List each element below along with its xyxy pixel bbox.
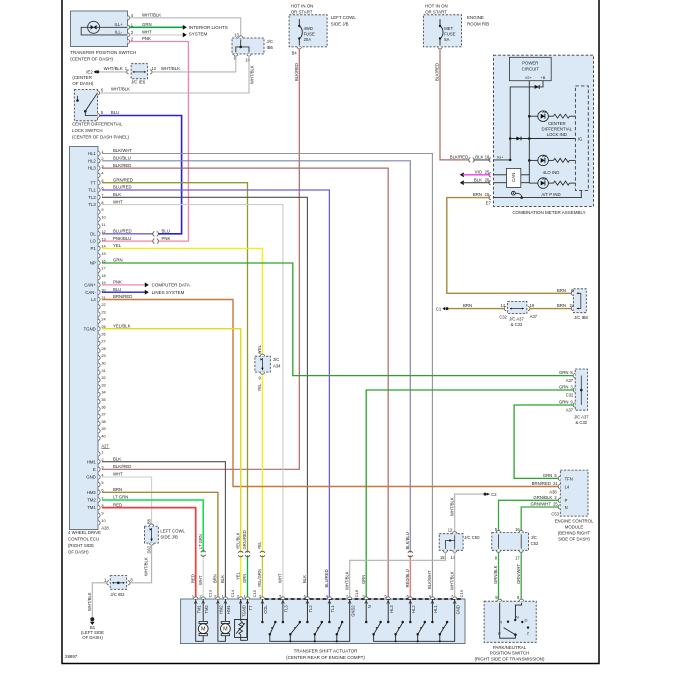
svg-text:TM2: TM2 [87,498,96,503]
svg-text:38: 38 [101,419,105,424]
svg-text:GND: GND [86,475,96,480]
svg-text:19: 19 [530,303,535,308]
svg-text:VIO: VIO [475,169,483,174]
svg-text:17: 17 [101,266,105,271]
svg-text:26: 26 [101,331,105,336]
splice C2 [455,494,484,531]
svg-text:PNK: PNK [113,280,122,285]
svg-text:29: 29 [101,353,105,358]
svg-text:TL3: TL3 [88,202,96,207]
svg-text:9: 9 [101,511,103,516]
svg-text:CONTROL ECU: CONTROL ECU [68,536,99,541]
svg-text:BLK/RED: BLK/RED [294,63,299,81]
svg-text:P1: P1 [91,246,97,251]
wire GRN/WHT J/C C52 to park/neutral switch pin8 [520,552,522,600]
svg-text:32: 32 [101,375,105,380]
svg-text:A37: A37 [566,378,574,383]
wire RED/BLU joint to actuator HL2 [409,555,411,599]
svg-text:TGND: TGND [241,605,246,617]
wire PNK ECU CAN+ to computer data lines [102,284,145,286]
svg-text:J/C IB2: J/C IB2 [110,592,125,597]
power circuit [509,57,551,80]
svg-text:J/C IB8: J/C IB8 [574,315,588,320]
svg-text:C18: C18 [354,589,359,597]
svg-text:CAN+: CAN+ [84,283,96,288]
svg-text:TRANSFER SHIFT ACTUATOR: TRANSFER SHIFT ACTUATOR [294,649,359,654]
svg-text:IG+: IG+ [525,75,532,80]
svg-text:J/C: J/C [267,39,273,44]
svg-text:J/C: J/C [273,357,279,362]
svg-text:B4: B4 [292,51,298,56]
svg-text:WHT/BLK: WHT/BLK [250,65,255,84]
svg-text:BLK/BLU: BLK/BLU [405,532,410,549]
svg-text:A38: A38 [549,490,557,495]
svg-text:MET: MET [444,26,453,31]
svg-text:18: 18 [485,154,490,159]
svg-text:BRN/RED: BRN/RED [532,481,551,486]
svg-text:ROOM R/B: ROOM R/B [467,22,489,27]
svg-text:5: 5 [101,480,103,485]
svg-text:16: 16 [515,527,520,532]
meter pin IG+ (18) [489,158,491,162]
svg-text:B5: B5 [147,518,152,524]
svg-text:TM1: TM1 [87,505,96,510]
wire PNK/BLU ECU LO to joint [102,240,153,242]
svg-text:A28: A28 [101,526,109,531]
svg-text:25: 25 [553,502,558,507]
svg-text:(CENTER OF DASH): (CENTER OF DASH) [70,56,113,61]
svg-text:P: P [565,498,568,503]
svg-text:PNK/BLU: PNK/BLU [113,236,131,241]
svg-text:YEL/GRN: YEL/GRN [257,569,262,587]
A/T P indicator LED [529,182,538,184]
svg-text:BLK: BLK [220,575,225,583]
svg-text:PNK: PNK [162,236,171,241]
svg-text:GRN: GRN [559,399,569,404]
svg-text:C15: C15 [252,589,257,597]
svg-text:DIFFERENTIAL: DIFFERENTIAL [542,127,573,132]
wire WHT/BLK J/C C50 pin14 to actuator GND [454,552,456,599]
svg-text:D: D [525,617,528,622]
svg-text:28897: 28897 [65,654,78,659]
svg-text:35: 35 [101,397,105,402]
wire GRN/BLK ECM P to J/C C52 [499,500,559,532]
svg-text:L4: L4 [565,485,570,490]
svg-text:(RIGHT SIDE OF TRANSMISSION): (RIGHT SIDE OF TRANSMISSION) [475,656,545,661]
svg-text:A37: A37 [530,314,538,319]
svg-text:TM2: TM2 [204,605,209,614]
illumination bulb [81,27,127,35]
svg-text:28: 28 [101,346,105,351]
svg-text:4LO IND: 4LO IND [543,170,560,175]
svg-text:CAN: CAN [511,173,516,182]
svg-text:GRN: GRN [242,574,247,583]
svg-text:CAN-: CAN- [85,290,96,295]
inner box to E7 row [523,190,582,197]
junction connector J/C IB2 [110,576,127,590]
svg-text:LINES SYSTEM: LINES SYSTEM [152,290,185,295]
actuator connector dashed edge [265,598,462,600]
meter internal IG+ bus [528,81,530,183]
svg-text:C52: C52 [531,541,539,546]
svg-text:POSITION SWITCH: POSITION SWITCH [490,651,530,656]
svg-text:LOCK IND: LOCK IND [547,132,567,137]
wire GRN J/C A37 pin9 to ECM TFN [514,405,574,478]
svg-text:15: 15 [485,192,490,197]
svg-text:10: 10 [245,58,250,63]
svg-text:20A: 20A [304,37,312,42]
svg-text:(BEHIND RIGHT: (BEHIND RIGHT [558,531,591,536]
wire YEL ECU P1 to J/C A34 [102,248,262,356]
svg-text:LO: LO [90,239,96,244]
svg-text:HL3: HL3 [88,166,96,171]
svg-text:BLK/RED: BLK/RED [435,63,440,81]
svg-text:YEL/BLK: YEL/BLK [113,323,131,328]
actuator high-low detect switch (N group) [374,599,455,641]
svg-text:WHT/BLK: WHT/BLK [449,571,454,590]
svg-text:TM1: TM1 [196,605,201,614]
transfer position switch pins [127,16,129,20]
svg-text:GRN/RED: GRN/RED [113,177,133,182]
svg-text:COMPUTER DATA: COMPUTER DATA [152,283,190,288]
meter pin BLK (26) [489,181,491,185]
svg-text:J/C C50: J/C C50 [464,535,480,540]
svg-text:C1: C1 [436,307,442,312]
svg-text:25: 25 [485,169,490,174]
svg-text:WHT/BLK: WHT/BLK [142,12,161,17]
svg-text:BRN: BRN [557,303,566,308]
svg-text:YEL: YEL [257,541,262,550]
svg-text:C2: C2 [491,492,497,497]
svg-text:A/T P IND: A/T P IND [541,192,560,197]
svg-text:E7: E7 [486,200,492,205]
svg-text:N: N [565,505,568,510]
svg-text:M: M [223,627,228,633]
svg-text:3: 3 [101,465,103,470]
svg-text:BLU: BLU [162,229,170,234]
resistor [554,158,570,162]
svg-text:OF DASH): OF DASH) [72,81,94,86]
wire BRN to J/C IB8 pin 24 [529,308,572,310]
svg-text:BLU: BLU [111,110,119,115]
wire GRN/RED ECU TT (to GRN at joint) [102,183,248,553]
wire WHT/BLK J/C C50 pin15 to actuator GND2 [350,552,446,599]
svg-text:BLK: BLK [302,575,307,583]
combination meter assembly [494,55,594,206]
svg-text:FUSE: FUSE [444,32,455,37]
svg-text:BRN: BRN [463,303,472,308]
wire RED ECU TM1 to actuator TM1 [102,508,196,599]
svg-text:GRN: GRN [113,258,123,263]
svg-text:C19: C19 [459,589,464,597]
wire BRN splice C1 to J/C A37 & C32 [449,308,507,310]
svg-text:1: 1 [101,449,103,454]
svg-text:J/C: J/C [531,535,537,540]
svg-text:LT GRN: LT GRN [198,534,203,549]
svg-text:WHT/BLK: WHT/BLK [161,66,180,71]
wire BRN/RED ECU L4 to ECM L4 [102,300,559,487]
wire WHT/BLK switch pin4 to J/C IB6 pin13 [130,18,241,38]
svg-text:A27: A27 [101,444,109,449]
svg-text:IG+: IG+ [497,155,504,160]
svg-text:& C32: & C32 [575,420,587,425]
transfer position switch box [71,11,128,47]
svg-text:TGND: TGND [84,326,96,331]
svg-text:HOT IN ON: HOT IN ON [425,3,448,8]
svg-text:ILL-: ILL- [115,30,123,35]
svg-text:18: 18 [101,273,105,278]
meter +B diode path [510,81,543,160]
svg-text:MODULE: MODULE [565,524,584,529]
actuator motor 2 (high-low motor) [224,599,226,621]
svg-text:TL2: TL2 [88,195,96,200]
svg-text:WHT/BLK: WHT/BLK [111,87,130,92]
svg-text:36: 36 [101,404,105,409]
center differential lock switch [74,90,97,121]
wire LT GRN ECU TM2 to joint, then WHT to actuator TM2 [102,500,203,552]
wire BLK/RED 4WD fuse to ECU pin E [102,48,299,469]
park/neutral position switch [484,601,536,642]
svg-text:RED/BLU: RED/BLU [405,569,410,587]
svg-text:BLK: BLK [113,456,121,461]
svg-text:37: 37 [101,412,105,417]
svg-text:26: 26 [485,177,490,182]
wire BRN meter E7 to J/C IB8 pin 8 [447,198,572,294]
svg-text:31: 31 [101,368,105,373]
svg-text:BRN: BRN [213,574,218,583]
svg-text:GRN: GRN [559,384,569,389]
svg-text:BLU/RED: BLU/RED [113,229,132,234]
wire WHT ECU TL3 to actuator TL3 [102,205,283,599]
svg-text:22: 22 [101,302,105,307]
svg-text:PNK: PNK [142,36,151,41]
svg-text:& C32: & C32 [511,322,523,327]
svg-text:DL: DL [90,231,96,236]
svg-text:L4: L4 [91,297,96,302]
svg-text:P: P [498,631,501,636]
svg-text:WHT: WHT [113,199,123,204]
svg-text:BRN/RED: BRN/RED [113,294,132,299]
svg-text:BRN: BRN [113,487,122,492]
svg-text:SYSTEM: SYSTEM [189,31,208,36]
svg-text:ENGINE: ENGINE [467,15,484,20]
svg-text:OF DASH): OF DASH) [82,635,103,640]
meter inner circuit bus box [575,86,588,190]
svg-text:(CENTER REAR OF ENGINE COMPT): (CENTER REAR OF ENGINE COMPT) [286,655,365,660]
svg-text:C32: C32 [566,392,574,397]
svg-text:YEL/BLK: YEL/BLK [235,532,240,549]
resistor [554,181,570,185]
svg-text:GRN/WHT: GRN/WHT [516,564,521,584]
wire WHT ECU GND to left cowl side J/B B5 [102,477,152,526]
svg-text:OR START: OR START [291,10,313,15]
wire GRN J/C C32 pin3 to actuator N [366,390,574,599]
svg-text:BLK: BLK [474,177,482,182]
svg-text:WHT/BLK: WHT/BLK [344,571,349,590]
svg-text:C53: C53 [551,512,559,517]
svg-text:+B: +B [540,75,545,80]
svg-text:13: 13 [234,33,239,38]
svg-text:BRN: BRN [473,192,482,197]
svg-text:12: 12 [152,66,157,71]
svg-text:A34: A34 [273,363,281,368]
svg-text:C13: C13 [208,589,213,597]
svg-text:CENTER: CENTER [548,121,566,126]
svg-text:IG: IG [578,136,582,141]
svg-text:YEL: YEL [113,243,122,248]
svg-text:CIRCUIT: CIRCUIT [522,67,540,72]
junction connector J/C IB8 [573,289,586,313]
svg-text:J/C A37: J/C A37 [509,317,524,322]
svg-text:TT: TT [91,180,97,185]
svg-text:33: 33 [101,382,105,387]
wire BLK/WHT ECU HL1 to actuator HL1 [102,154,432,600]
wire BLK ECU TL2 to actuator TL2 [102,197,307,599]
svg-text:WHT/BLK: WHT/BLK [87,592,92,611]
wire GRN ECU NP to J/C A37&C32 pin8 [102,263,574,376]
svg-text:GRN/RED: GRN/RED [242,530,247,549]
svg-text:4 WHEEL DRIVE: 4 WHEEL DRIVE [68,530,101,535]
svg-text:BLK/RED: BLK/RED [113,464,131,469]
svg-text:FUSE: FUSE [304,32,315,37]
wire PNK switch pin2 to ECU pin13 [130,42,189,242]
ground B1 [90,617,94,621]
svg-text:NP: NP [90,261,96,266]
junction connector J/C A37 & C32 (right) [575,369,587,410]
wire GRN/BLK J/C C52 to park/neutral switch pin9 [498,552,500,600]
frame border [62,0,599,664]
svg-text:15: 15 [440,555,445,560]
svg-text:COL: COL [263,605,268,614]
svg-text:HL1: HL1 [433,605,438,613]
engine control module [560,470,588,516]
svg-text:ENGINE CONTROL: ENGINE CONTROL [555,518,594,523]
svg-text:C32: C32 [499,315,507,320]
svg-text:J/C A37: J/C A37 [574,414,589,419]
svg-text:39: 39 [101,426,105,431]
svg-text:LEFT COWL: LEFT COWL [331,15,357,20]
wire BLU center diff lock switch pin5 to ECU pin12 [100,116,182,234]
svg-text:9: 9 [101,207,103,212]
meter internal ground symbol [512,191,516,195]
svg-text:WHT: WHT [113,472,123,477]
wire YEL J/C A34 to joint, then YEL/GRN to actuator COL [261,372,263,553]
svg-text:LT GRN: LT GRN [113,495,128,500]
svg-text:BLU/RED: BLU/RED [113,185,132,190]
svg-text:GRN: GRN [559,370,569,375]
svg-text:TL2: TL2 [308,605,313,613]
svg-text:SIDE J/B: SIDE J/B [331,22,349,27]
svg-text:(CENTER: (CENTER [72,75,92,80]
wire GRN/WHT ECM N to J/C C52 [521,507,559,533]
svg-text:HL2: HL2 [411,605,416,613]
svg-text:GRN/BLK: GRN/BLK [493,565,498,584]
svg-text:GRN: GRN [142,22,152,27]
svg-text:GRN/BLK: GRN/BLK [533,495,552,500]
svg-text:WHT: WHT [142,30,152,35]
actuator mode select switch (COL group) [270,599,350,641]
junction connector J/C C52 [492,533,529,551]
svg-text:LOCK SWITCH: LOCK SWITCH [72,128,103,133]
svg-text:TRANSFER POSITION SWITCH: TRANSFER POSITION SWITCH [70,50,136,55]
svg-text:TFN: TFN [565,476,573,481]
svg-text:23: 23 [101,309,105,314]
svg-text:GRN/WHT: GRN/WHT [530,502,551,507]
wire BLK/BLU ECU HL2 (to RED/BLU at joint) [102,161,410,553]
svg-text:E: E [93,467,96,472]
svg-text:HL2: HL2 [88,158,96,163]
svg-text:WHT/BLK: WHT/BLK [104,66,123,71]
meter pin VIO (25) [489,173,491,177]
wire BLU/RED ECU DL to joint [102,233,153,235]
svg-text:15: 15 [101,251,105,256]
svg-text:TL3: TL3 [284,605,289,613]
svg-text:HL3: HL3 [389,605,394,613]
svg-text:BLK/BLU: BLK/BLU [113,156,131,161]
ECU connector A28 pins 1-10 [98,452,100,456]
wire BRN ECU HM2 to actuator HM2 [102,492,218,599]
svg-text:J/C IE6: J/C IE6 [131,80,146,85]
actuator position sensor (potentiometer) [240,599,242,621]
svg-text:27: 27 [101,339,105,344]
svg-text:5A: 5A [444,37,449,42]
svg-text:LEFT COWL: LEFT COWL [160,528,185,533]
svg-text:N: N [516,615,519,620]
svg-text:HM2: HM2 [219,605,224,614]
svg-text:GRN: GRN [543,473,553,478]
svg-text:(RIGHT SIDE: (RIGHT SIDE [68,543,94,548]
svg-text:OF DASH): OF DASH) [68,549,89,554]
svg-text:COMBINATION METER ASSEMBLY: COMBINATION METER ASSEMBLY [512,210,585,215]
svg-text:12: 12 [448,528,453,533]
junction connector J/C IB6 [232,38,264,54]
wire WHT/BLK J/C IB6 pin10 to center diff lock switch pin6 [100,56,249,94]
wire WHT/BLK J/C IB6 pin9 to IE2 row [150,56,236,72]
svg-text:OR START: OR START [425,10,447,15]
wire BLU/RED ECU TL1 to actuator TL1 [102,190,329,599]
svg-text:WHT: WHT [278,573,283,583]
svg-text:SIDE J/B: SIDE J/B [160,535,178,540]
svg-text:21: 21 [553,481,558,486]
svg-text:HM1: HM1 [87,459,97,464]
svg-text:GND: GND [455,605,460,614]
svg-text:HM1: HM1 [226,605,231,614]
svg-text:IE2: IE2 [86,70,93,75]
wire WHT/BLK B5/D62 to J/C IB2 pin 8 [130,545,151,583]
wire BLK/RED ECU HL3 to actuator HL3 [102,168,388,599]
svg-text:INTERIOR LIGHTS: INTERIOR LIGHTS [189,25,228,30]
junction connector J/C A37 & C32 (inline) [508,301,527,313]
wire WHT/BLK J/C IB2 pin1 to ground B1 [92,583,107,618]
svg-text:BLU/RED: BLU/RED [324,569,329,587]
ECU connector A27 pins 1-40 [98,151,100,155]
wire BLK ECU HM1 to actuator HM1 [102,462,225,599]
4LO indicator LED [529,159,538,161]
wire GRN to interior lights [130,26,184,28]
wire BLK/RED MET fuse to combination meter IG+ [440,48,468,159]
svg-text:BLU: BLU [113,287,121,292]
svg-text:GND2: GND2 [350,605,355,617]
svg-text:17: 17 [515,556,520,561]
svg-text:SIDE OF DASH): SIDE OF DASH) [558,537,590,542]
junction connector J/C IE6 [131,64,147,79]
svg-text:C14: C14 [230,589,235,597]
svg-text:BLK/WHT: BLK/WHT [427,570,432,589]
resistor [554,114,570,118]
wire YEL/BLK ECU TGND to joint, then YEL to actuator TGND [102,329,241,553]
svg-text:TL1: TL1 [330,605,335,613]
svg-text:TT: TT [248,605,253,611]
